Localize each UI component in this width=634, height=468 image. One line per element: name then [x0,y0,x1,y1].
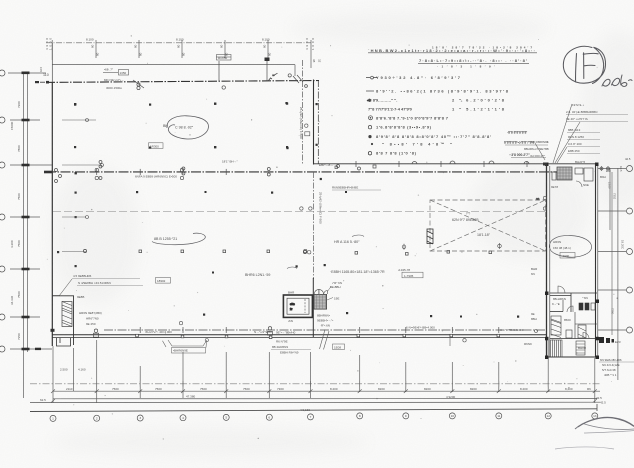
hatched box beside room [314,295,327,310]
left dimension verticals [8,73,52,398]
stacked shutter pairs on y172 [95,168,184,179]
bottom border line [30,409,597,412]
lower hall chain partition [313,172,315,279]
lower partition wall solid [312,278,314,337]
grid tick verticals [53,340,595,403]
ellipse FD right [549,235,591,258]
grid crossing ticks on chain lines [97,161,527,333]
secondary offset line [52,65,295,76]
left-of-tower small fd labels [524,267,538,346]
plus ticks on bottom chain dim line [97,381,549,387]
right dimension vertical [598,168,626,380]
room leader notes right [317,281,342,328]
tower mid fixtures [566,303,595,338]
notes legend rows [368,75,509,156]
tower tiny labels [551,160,589,350]
black box left of X-box [427,229,433,244]
X-box mezzanine rack [430,200,546,251]
shutter symbol top wall 2 [219,61,291,89]
rotated numbers right of corner [312,59,322,63]
bottom total line [53,398,597,400]
scan noise texture [0,0,1,1]
tower leader lines [535,104,580,163]
door arcs above hatch [314,289,327,294]
upper hall shutter partition line [302,60,304,165]
notes block title lines [368,53,537,64]
mid hall long chain line y=172 [46,164,597,172]
right edge extra dim texts [608,157,631,189]
total area note right [330,268,423,278]
top dimension rotated numbers [45,38,315,56]
legend lead symbols [366,76,377,155]
symbol at grid near room [268,327,273,336]
slide door labels on bottom chain [145,326,524,335]
left annex partition [52,296,74,345]
upper hall interior dots [74,103,288,149]
top dimension line [46,40,311,68]
1F04 box [333,344,345,349]
right dim second vertical [611,172,613,335]
notes lower right leader texts [504,131,548,158]
label A [334,235,364,244]
tower stair hatch mid [551,316,561,338]
tower top-right leader annotation block [566,103,628,154]
darker swoosh reinforcement [578,418,634,427]
bracket note axis6 [168,321,208,353]
shutter motor symbol upper [285,102,317,149]
circled symbols near x-box bottom [402,243,537,342]
ellipse B label [152,233,205,245]
bottom dim line [53,390,600,392]
gray smudges [0,0,1,1]
left dim rotated numbers [10,66,43,340]
svg-text:42.5: 42.5 [625,157,631,161]
handwriting ppb [602,75,632,86]
tower bottom stair hatch [551,340,586,357]
small ticks on dim lines [51,389,597,402]
1F300 box [149,143,164,149]
annex labels [79,311,102,326]
leader to bracket [163,341,167,347]
grid circle numbers [52,414,597,420]
svg-text:EZ3: EZ3 [615,340,621,344]
handwritten swoosh bottom right [575,417,634,429]
bottom-left annex leader texts [59,274,143,296]
tiny numbers above top dim line [86,38,270,42]
left dim tick blobs [22,72,42,351]
right tower bottom wall [547,356,599,358]
building top-left rotated tick labels row2 [216,55,231,61]
wall left-end blobs on y172 [51,163,548,332]
arrow label 1350 mid [103,70,129,76]
grid circles bottom row [50,413,598,422]
symbol at grid2 wall [94,329,99,337]
lower hall dots [75,265,520,352]
right outside dim labels [600,166,625,315]
tower interior [550,293,597,339]
annex entry below wall [57,338,71,346]
columns squares row y252 [83,249,491,255]
svg-text:8.100: 8.100 [262,38,270,42]
mid line labels [135,160,278,179]
left inner tick rows [53,120,100,296]
bottom wall of main hall (double) [52,335,546,338]
bottom shutter chain line [104,329,546,331]
small marks right of wall top [293,75,307,87]
wall column squares on bottom wall [136,334,500,338]
ellipse C label [163,116,209,139]
notes below wall center [271,340,311,355]
right tower left wall [547,164,550,358]
top wall (chain line) [40,81,319,83]
scan specks [47,35,618,440]
tower machine room top hatch [552,167,593,187]
left outer wall [51,82,53,346]
tower door arcs [558,286,589,339]
svg-text:8.100: 8.100 [176,38,184,42]
svg-text:8.100: 8.100 [86,38,94,42]
right bottom note block [599,358,634,377]
right edge column symbols [600,166,610,171]
top wall shutter label [104,78,124,90]
moved-goods note [332,186,381,191]
handwritten 1F circle [563,46,605,83]
right grid circles [627,166,633,334]
right wall of upper hall (double) [314,80,319,165]
shutter motor symbols lower [296,178,326,268]
right edge bottom blobs [599,337,614,343]
left grid circles [0,70,5,352]
stair hatch left annex [62,302,72,327]
bottom dimension chain line [30,383,600,385]
mid chain dots row y192 [75,191,348,194]
svg-text:2.100: 2.100 [608,182,612,189]
black columns [545,163,599,360]
right tower right wall [596,164,598,358]
left wall column dots [57,172,77,253]
left-of-tower small texts [524,140,549,158]
top wall marks right hall [335,161,529,169]
bottom dim numbers [40,368,606,413]
diagonal leaders below room [320,330,451,350]
15902 box [156,278,171,284]
bottom second line [30,401,600,403]
bottom center room double box [283,295,312,317]
short dim vertical x73 [73,348,75,392]
faint mid chain line y=211 [53,210,546,212]
tower wall symbols [536,196,547,210]
shutter symbols on mid line [55,161,361,183]
shutter symbol top wall 1 [133,80,144,90]
dark tick blobs at wall-chain crossings [35,81,52,173]
small circles mid-left rows [86,119,104,219]
